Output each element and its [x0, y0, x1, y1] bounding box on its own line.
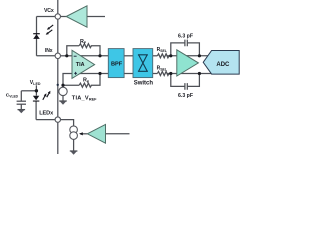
- svg-text:ADC: ADC: [216, 62, 230, 68]
- svg-text:6.3 pF: 6.3 pF: [178, 34, 193, 40]
- svg-text:TIA: TIA: [76, 62, 85, 68]
- svg-text:Switch: Switch: [134, 80, 154, 86]
- svg-text:VCx: VCx: [44, 8, 54, 14]
- svg-text:LEDx: LEDx: [39, 111, 54, 117]
- svg-text:INx: INx: [45, 48, 53, 54]
- svg-text:BPF: BPF: [111, 62, 123, 68]
- svg-text:6.3 pF: 6.3 pF: [178, 93, 193, 99]
